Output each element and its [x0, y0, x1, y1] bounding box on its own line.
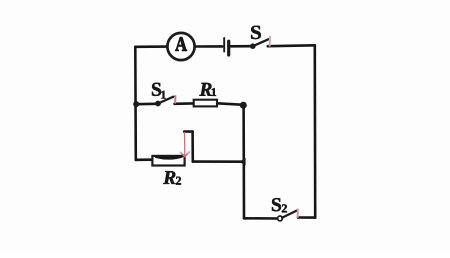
- resistor R2 thick brush stroke on top edge: [157, 156, 182, 158]
- switch S1 fixed contact (pink): [174, 96, 176, 103]
- wire: switch S to top-right corner: [268, 44, 315, 48]
- wire: R2 wiper horizontal top segment: [184, 130, 192, 133]
- wire: left vertical corner to R2 left terminal: [136, 158, 153, 161]
- label S: [251, 26, 261, 39]
- switch S1 lever: [158, 97, 173, 104]
- wire: S1 contact to R1: [175, 102, 194, 105]
- wire: R2 wiper vertical drop: [191, 132, 194, 162]
- node: junction blob at lower horizontal / middle vertical: [239, 158, 245, 166]
- ammeter A1 circle: [167, 33, 194, 60]
- wire: ammeter to battery: [195, 45, 222, 48]
- wire: R1 to middle junction: [217, 103, 242, 104]
- switch S2 lever: [282, 211, 297, 218]
- wire: left vertical: [134, 47, 137, 160]
- battery cell long thin plate: [223, 38, 225, 52]
- label S2: [272, 198, 281, 211]
- resistor R1 body: [194, 100, 217, 107]
- switch S2 pivot circle (open): [278, 216, 283, 221]
- wire: middle vertical (R1 junction down to bottom): [242, 105, 245, 218]
- wire: bottom from mid vertical to S2 pivot: [244, 217, 278, 220]
- wire: right vertical: [313, 45, 316, 217]
- wire: battery to switch S pivot: [231, 45, 253, 48]
- node: junction dot at R1 right / middle vertical: [240, 102, 247, 109]
- switch S pivot dot: [250, 43, 256, 49]
- label R2: [163, 171, 175, 184]
- wire: S1 branch from left junction to S1 pivot: [136, 103, 156, 106]
- rheostat R2 wiper arrow (red): [184, 133, 186, 157]
- wire: top-left from corner to ammeter: [136, 45, 168, 48]
- ammeter A1 letter: [175, 37, 187, 50]
- label S1: [152, 83, 161, 96]
- battery cell short thick plate: [227, 41, 230, 55]
- label R1: [199, 83, 211, 96]
- switch S2 fixed contact (pink): [297, 209, 299, 217]
- switch S lever: [253, 39, 269, 46]
- resistor R2 (rheostat) body: [152, 156, 184, 166]
- node: junction dot left (S1 tap): [133, 101, 139, 107]
- wire: bottom from S2 contact to bottom-right corner: [298, 216, 315, 219]
- switch S1 pivot dot: [155, 101, 161, 107]
- rheostat R2 wiper arrowhead: [180, 152, 189, 157]
- wire: lower horizontal to middle junction: [193, 160, 244, 163]
- switch S fixed contact (pink): [269, 37, 271, 46]
